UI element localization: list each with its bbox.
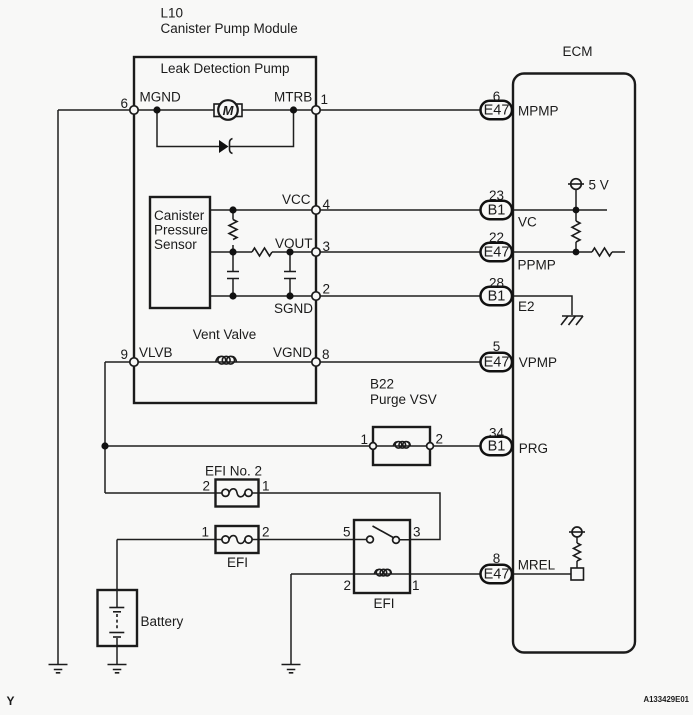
svg-text:E47: E47 — [484, 245, 510, 261]
svg-text:2: 2 — [343, 578, 351, 593]
svg-text:VC: VC — [518, 215, 537, 230]
svg-text:B1: B1 — [488, 203, 506, 219]
svg-text:6: 6 — [493, 89, 501, 104]
svg-text:E47: E47 — [484, 103, 510, 119]
svg-text:Leak Detection Pump: Leak Detection Pump — [160, 61, 289, 76]
svg-text:2: 2 — [262, 525, 270, 540]
svg-text:5: 5 — [343, 525, 351, 540]
svg-text:22: 22 — [489, 230, 504, 245]
svg-text:B1: B1 — [488, 439, 506, 455]
svg-text:Vent Valve: Vent Valve — [193, 327, 257, 342]
svg-text:4: 4 — [323, 197, 331, 212]
svg-text:8: 8 — [322, 347, 330, 362]
svg-text:6: 6 — [120, 96, 128, 111]
svg-text:MREL: MREL — [518, 558, 556, 573]
svg-text:E2: E2 — [518, 299, 535, 314]
svg-text:VCC: VCC — [282, 192, 311, 207]
svg-text:PPMP: PPMP — [518, 258, 556, 273]
svg-text:1: 1 — [262, 479, 270, 494]
svg-text:5 V: 5 V — [589, 178, 609, 193]
svg-text:MPMP: MPMP — [518, 104, 559, 119]
svg-text:1: 1 — [360, 432, 368, 447]
svg-text:ECM: ECM — [563, 44, 593, 59]
svg-text:28: 28 — [489, 276, 504, 291]
svg-text:1: 1 — [412, 578, 420, 593]
svg-text:E47: E47 — [484, 355, 510, 371]
svg-text:Pressure: Pressure — [154, 223, 208, 238]
svg-text:Canister Pump Module: Canister Pump Module — [161, 21, 298, 36]
svg-text:3: 3 — [323, 239, 331, 254]
svg-text:EFI: EFI — [227, 555, 248, 570]
svg-text:23: 23 — [489, 188, 504, 203]
svg-text:3: 3 — [413, 525, 421, 540]
svg-text:2: 2 — [323, 282, 331, 297]
svg-text:Battery: Battery — [141, 614, 184, 629]
svg-text:SGND: SGND — [274, 301, 313, 316]
svg-text:9: 9 — [120, 347, 128, 362]
svg-text:MTRB: MTRB — [274, 90, 312, 105]
svg-text:Y: Y — [7, 694, 15, 708]
svg-text:B1: B1 — [488, 289, 506, 305]
svg-text:1: 1 — [321, 92, 329, 107]
svg-text:M: M — [223, 103, 235, 118]
svg-text:A133429E01: A133429E01 — [643, 695, 689, 704]
svg-text:EFI: EFI — [374, 596, 395, 611]
svg-text:PRG: PRG — [519, 441, 548, 456]
svg-text:EFI No. 2: EFI No. 2 — [205, 464, 262, 479]
svg-text:1: 1 — [201, 525, 209, 540]
svg-text:34: 34 — [489, 426, 505, 441]
svg-text:Purge VSV: Purge VSV — [370, 392, 437, 407]
svg-text:MGND: MGND — [140, 90, 181, 105]
svg-text:Sensor: Sensor — [154, 237, 197, 252]
svg-text:E47: E47 — [484, 567, 510, 583]
svg-text:B22: B22 — [370, 377, 394, 392]
svg-text:8: 8 — [493, 551, 501, 566]
svg-text:2: 2 — [436, 432, 444, 447]
svg-text:VLVB: VLVB — [139, 345, 173, 360]
svg-text:VOUT: VOUT — [275, 236, 313, 251]
svg-text:Canister: Canister — [154, 208, 205, 223]
svg-text:VGND: VGND — [273, 345, 312, 360]
svg-text:L10: L10 — [161, 6, 184, 21]
svg-text:2: 2 — [202, 479, 210, 494]
svg-text:VPMP: VPMP — [519, 355, 557, 370]
svg-text:5: 5 — [493, 339, 501, 354]
